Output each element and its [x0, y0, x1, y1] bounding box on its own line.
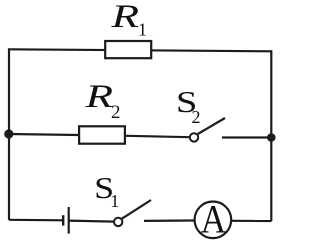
battery B1, positive plate (long) — [68, 207, 70, 234]
wire: S1 to ammeter segment — [144, 219, 194, 222]
wire: middle rail, R2 to S2 segment — [126, 136, 190, 137]
svg-text:A: A — [201, 197, 227, 242]
wire: top rail — [8, 49, 272, 51]
wire: left rail — [8, 49, 10, 220]
resistor R2 — [79, 126, 125, 143]
wire: middle rail, left segment — [9, 134, 79, 135]
wire: bottom rail, left segment — [9, 219, 64, 222]
svg-text:R: R — [84, 79, 113, 115]
node: left junction — [4, 129, 13, 138]
svg-text:1: 1 — [110, 191, 119, 211]
battery B1, negative plate (short) — [62, 215, 64, 225]
wire: middle rail, S2 to right rail segment — [222, 136, 272, 138]
ammeter A — [195, 202, 232, 239]
svg-text:1: 1 — [138, 20, 147, 40]
switch S1 — [114, 218, 122, 226]
node: right junction — [267, 133, 276, 142]
wire: ammeter to right rail segment — [231, 220, 271, 222]
svg-text:2: 2 — [111, 102, 121, 123]
wire: battery to S1 segment — [69, 221, 114, 222]
resistor R1 — [105, 41, 151, 58]
svg-text:R: R — [110, 0, 139, 35]
svg-text:2: 2 — [192, 107, 201, 127]
switch S2 — [190, 133, 198, 141]
wire: right rail — [270, 50, 272, 221]
